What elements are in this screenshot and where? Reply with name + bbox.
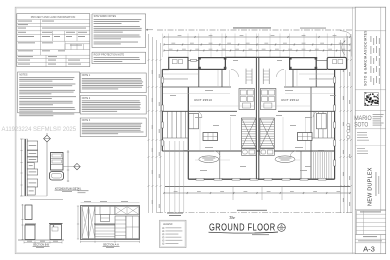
table: PROJECT AND LAND INFORMATION xyxy=(17,14,90,67)
floor plan: wall extension lines to dims xyxy=(161,34,163,58)
svg-text:NOTE 3: NOTE 3 xyxy=(82,120,91,122)
svg-text:UNIT #3510: UNIT #3510 xyxy=(194,98,212,102)
floor plan: windows in exterior walls xyxy=(191,59,197,61)
title block: revision table xyxy=(356,211,385,235)
floor plan: bottom dimension line xyxy=(164,192,350,194)
notes box: NOTE 2 xyxy=(80,96,146,114)
svg-text:PROJECT AND LAND INFORMATION: PROJECT AND LAND INFORMATION xyxy=(31,15,76,19)
svg-text:A11923224 SEFMLS© 2025: A11923224 SEFMLS© 2025 xyxy=(2,125,77,133)
detail drawing: KITCHEN PLAN DETAIL xyxy=(24,139,26,196)
detail drawing: SECTION A-A (kitchen elevation) xyxy=(81,206,140,240)
title block: architect contact lines xyxy=(373,113,384,116)
detail drawing: SECTION B-B xyxy=(22,204,24,240)
floor plan: porch columns xyxy=(198,57,201,60)
svg-text:A-3: A-3 xyxy=(363,244,375,253)
title block: sheet number A-3 xyxy=(355,242,386,244)
svg-text:GROUND FLOOR: GROUND FLOOR xyxy=(209,221,276,232)
floor plan: leader arrow top-left xyxy=(146,29,153,31)
svg-text:SOTO: SOTO xyxy=(354,121,368,128)
svg-text:LEGEND: LEGEND xyxy=(163,224,173,226)
svg-text:SITE WORK NOTES: SITE WORK NOTES xyxy=(94,15,117,18)
title block: company logo (dark mark) xyxy=(364,92,378,105)
svg-text:The: The xyxy=(229,215,235,220)
drawing title: detail bubble A xyxy=(278,224,286,232)
svg-text:ROOF PROTECTION NOTE: ROOF PROTECTION NOTE xyxy=(94,53,125,56)
title block: outer frame xyxy=(355,7,386,254)
floor plan: door swing arcs xyxy=(231,69,239,77)
floor plan: walkway outline top-right (rounded corner) xyxy=(340,31,351,57)
floor plan: left dimension lines xyxy=(148,34,150,213)
floor plan: interior micro dimension text xyxy=(205,89,213,92)
floor plan: exterior walls xyxy=(161,70,163,152)
title block: project address (vertical) xyxy=(375,172,378,196)
legend box: LEGEND xyxy=(160,220,186,247)
svg-text:NOTE 2: NOTE 2 xyxy=(82,98,91,100)
floor plan: interior walls xyxy=(162,86,231,88)
notes box: SITE WORK NOTES xyxy=(92,14,146,48)
title block: divider above logo xyxy=(355,89,386,91)
floor plan: interior dimension strings xyxy=(163,74,198,80)
drawing title: scale text xyxy=(252,233,269,236)
title block: sheet caption lines xyxy=(355,234,386,236)
svg-text:SOTO & GARCIA ASSOCIATES: SOTO & GARCIA ASSOCIATES xyxy=(363,30,367,86)
floor plan: setback property line (bottom) xyxy=(157,212,352,214)
floor plan: wall extension lines to bottom dims xyxy=(163,141,165,212)
drawing title: GROUND FLOOR xyxy=(209,221,276,232)
title block: firm address lines (vertical) xyxy=(370,36,373,42)
title block: divider above revision table xyxy=(355,208,386,210)
floor plan: central stairs and bath core xyxy=(239,89,255,110)
title block: divider below logo xyxy=(355,110,386,112)
title block: consultant cell text xyxy=(357,131,367,134)
floor plan: right dimension lines xyxy=(340,40,342,213)
notes box: ROOF PROTECTION NOTE xyxy=(92,52,146,63)
notes box: NOTE 3 xyxy=(80,118,146,137)
floor plan: leader arc right side xyxy=(342,41,345,56)
floor plan: area label ovals xyxy=(199,156,219,163)
floor plan: setback property line (top) xyxy=(157,29,352,31)
svg-text:NOTE 1: NOTE 1 xyxy=(82,75,91,77)
floor plan: kitchen islands xyxy=(203,133,218,141)
svg-text:NOTES: NOTES xyxy=(19,73,28,76)
floor plan: central party wall xyxy=(255,57,257,179)
title block: top empty cell xyxy=(355,30,386,32)
notes box: NOTE 1 xyxy=(80,73,146,93)
svg-text:UNIT #3512: UNIT #3512 xyxy=(281,98,299,102)
floor plan: top dimension lines xyxy=(164,36,350,38)
title block: divider below name xyxy=(355,128,386,130)
notes box: NOTES (general) xyxy=(18,72,80,113)
svg-text:NEW DUPLEX: NEW DUPLEX xyxy=(368,167,374,206)
label above section A-A xyxy=(78,189,89,192)
legend: note above xyxy=(167,212,183,215)
